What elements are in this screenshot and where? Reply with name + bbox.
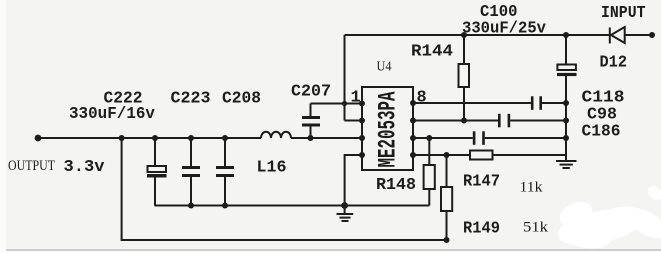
svg-text:C207: C207 — [291, 83, 331, 102]
wire: C222 stubs — [154, 138, 156, 206]
svg-text:C223: C223 — [171, 90, 211, 109]
node: C208 top junction — [222, 135, 228, 141]
node: ground rail junction — [341, 202, 348, 209]
svg-text:51k: 51k — [523, 220, 549, 236]
wire: R149 leads — [446, 155, 448, 187]
svg-text:R144: R144 — [411, 43, 453, 62]
capacitor C207 — [302, 116, 320, 127]
svg-text:U4: U4 — [377, 60, 392, 75]
capacitor C98 — [498, 114, 510, 128]
node: pin2 — [359, 118, 365, 124]
node: R149 bottom junction — [444, 237, 450, 243]
resistor R149 — [441, 187, 452, 211]
inductor L16 — [261, 132, 291, 138]
wire: right rail below C100 — [565, 76, 567, 155]
wire: vin vertical x=344.5 — [344, 35, 346, 121]
node: pin7 — [410, 118, 416, 124]
resistor R148 — [424, 165, 435, 189]
svg-text:330uF/25v: 330uF/25v — [462, 20, 546, 39]
svg-text:3.3v: 3.3v — [64, 158, 105, 177]
node: C207 bottom junction — [308, 135, 314, 141]
capacitor C186 — [473, 131, 485, 145]
wire: C223 stubs — [190, 138, 192, 206]
wire: feedback bottom loop — [122, 138, 447, 240]
node: right rail row3 junction — [563, 135, 569, 141]
resistor R147 — [470, 151, 493, 160]
diode D12 — [610, 27, 625, 44]
node: C222 top junction — [152, 135, 158, 141]
wire: R148 leads — [428, 138, 430, 206]
capacitor C100 (polarized) — [557, 65, 577, 77]
node: R144 bottom junction — [461, 118, 467, 124]
svg-text:C208: C208 — [222, 90, 261, 109]
svg-text:ME2053PA: ME2053PA — [374, 92, 403, 168]
svg-text:D12: D12 — [600, 54, 628, 73]
wire: to pin2 — [345, 120, 363, 122]
resistor R144 — [459, 64, 470, 87]
node: feedback tap junction — [119, 135, 125, 141]
node: output terminal dot — [35, 135, 42, 142]
svg-text:INPUT: INPUT — [601, 4, 646, 23]
node: R149 top junction — [444, 152, 450, 158]
svg-text:R147: R147 — [463, 173, 500, 192]
node: R148 top junction — [426, 135, 432, 141]
node: vin junction — [342, 101, 347, 106]
watermark blob — [555, 183, 661, 251]
node: right rail row1 junction — [563, 100, 569, 106]
node: pin8 — [410, 100, 416, 106]
node: pin4 corner junction — [359, 152, 365, 158]
wire: C207 stubs — [310, 104, 312, 139]
node: C223 bottom junction — [188, 203, 194, 209]
svg-text:R149: R149 — [463, 220, 500, 239]
svg-text:OUTPUT: OUTPUT — [8, 158, 55, 174]
capacitor C222 (polarized) — [147, 166, 167, 178]
svg-text:11k: 11k — [520, 180, 544, 196]
node: C208 bottom junction — [222, 203, 228, 209]
svg-text:C186: C186 — [582, 123, 621, 142]
IC U4 AP3502EM — [362, 87, 413, 170]
wire: top rail y=35 — [345, 34, 653, 36]
node: C100 top junction — [563, 32, 569, 38]
ground (left, under IC) — [337, 206, 354, 222]
wire: row4 through R147 — [413, 154, 566, 156]
wire: R144 leads — [463, 35, 465, 121]
wire: output rail y=138 right segment to pin3 — [291, 137, 362, 139]
svg-text:1: 1 — [351, 89, 361, 108]
wire: output rail y=138 left segment — [38, 137, 261, 139]
svg-text:L16: L16 — [257, 159, 287, 178]
node: input terminal dot — [649, 32, 655, 38]
capacitor C208 — [216, 166, 234, 177]
node: C223 top junction — [188, 135, 194, 141]
node: right rail row2 junction — [563, 118, 569, 124]
wire: pin4 to ground — [345, 155, 362, 206]
svg-text:330uF/16v: 330uF/16v — [69, 105, 155, 124]
node: R144 top junction — [461, 32, 467, 38]
wire: C100 top stub — [565, 35, 567, 65]
capacitor C223 — [182, 166, 200, 177]
node: pin3 — [359, 135, 365, 141]
wire: C208 stubs — [224, 138, 226, 206]
capacitor C118 — [531, 96, 542, 110]
wire: ground rail y=205.5 — [155, 205, 430, 207]
ground (right rail) — [556, 155, 577, 168]
wire: C207 to pin1 — [311, 103, 363, 105]
node: pin6 — [410, 135, 416, 141]
wire: row2 to right rail — [413, 120, 566, 122]
node: pin5 — [410, 152, 416, 158]
wire: row1 pin8 to right rail — [413, 102, 566, 104]
wire: row3 to right rail — [413, 137, 566, 139]
svg-text:R148: R148 — [376, 176, 416, 195]
svg-text:8: 8 — [417, 89, 427, 108]
node: pin1 — [359, 101, 365, 107]
